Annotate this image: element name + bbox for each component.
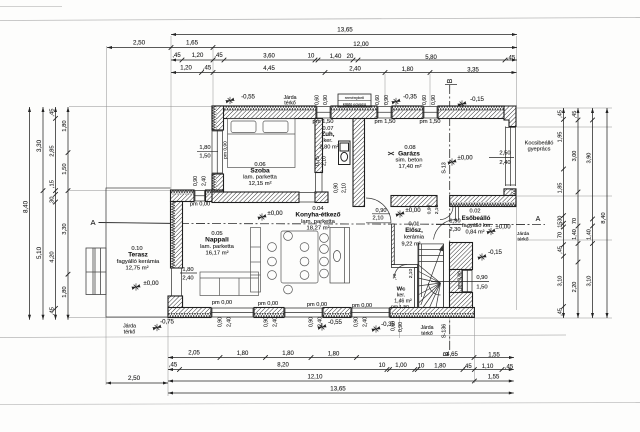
svg-text:1,50: 1,50	[62, 163, 68, 175]
level marker -0,15 (top)	[458, 100, 467, 107]
svg-text:fagyálló kerámia: fagyálló kerámia	[117, 259, 160, 265]
svg-text:,45: ,45	[558, 246, 564, 254]
svg-text:sim. beton: sim. beton	[396, 158, 423, 164]
svg-text:-0,55: -0,55	[328, 319, 342, 326]
svg-text:,70: ,70	[392, 273, 398, 280]
svg-text:2,40: 2,40	[363, 317, 369, 327]
svg-text:3,90: 3,90	[587, 153, 593, 164]
dimension chain bottom row2	[168, 363, 514, 372]
svg-text:1,85: 1,85	[558, 183, 564, 194]
window west step wall	[194, 191, 206, 202]
svg-text:0,90: 0,90	[427, 204, 433, 214]
svg-text:13,65: 13,65	[337, 27, 353, 34]
sideboard	[251, 228, 261, 293]
boxed label (top)	[338, 94, 371, 107]
svg-text:1,40: 1,40	[330, 54, 342, 60]
svg-text:5,10: 5,10	[36, 246, 43, 259]
front entry door arc	[434, 219, 457, 239]
svg-text:12,75 m²: 12,75 m²	[125, 266, 148, 272]
svg-text:2,10: 2,10	[434, 204, 440, 214]
dimension chain left col3	[49, 107, 58, 320]
dimension chain right col1	[558, 108, 566, 318]
svg-text:térkő: térkő	[518, 237, 529, 243]
window north W3	[423, 107, 438, 119]
svg-text:±0,00: ±0,00	[495, 224, 511, 231]
window garage east	[506, 127, 516, 187]
dimension chain top 2,50 1,65 12,00	[107, 40, 517, 50]
svg-text:,45: ,45	[203, 66, 212, 72]
svg-text:1,20: 1,20	[192, 53, 204, 59]
Szoba south wall	[212, 192, 299, 203]
svg-text:lam. parketta: lam. parketta	[243, 175, 278, 181]
svg-text:2,80 m²: 2,80 m²	[319, 145, 338, 151]
terrace outline	[106, 188, 171, 317]
svg-text:,45: ,45	[169, 363, 178, 369]
dimension chain top row3	[171, 53, 517, 62]
svg-text:Esőbeálló: Esőbeálló	[462, 215, 491, 222]
svg-text:Szoba: Szoba	[250, 168, 270, 175]
svg-text:0,60: 0,60	[315, 95, 321, 105]
svg-text:1,50: 1,50	[199, 154, 211, 160]
svg-text:3,60: 3,60	[263, 54, 275, 60]
svg-text:S-136: S-136	[442, 324, 448, 338]
svg-text:3,30: 3,30	[36, 139, 43, 152]
dimension chain bottom row1	[168, 351, 514, 360]
level marker +-0,00 esobeallo	[487, 228, 496, 235]
svg-text:,45: ,45	[505, 365, 514, 371]
svg-text:1,95: 1,95	[558, 132, 564, 143]
svg-text:5,80: 5,80	[425, 55, 437, 61]
svg-text:2,10: 2,10	[342, 183, 348, 193]
svg-text:B: B	[447, 78, 454, 83]
window west (Szoba)	[212, 130, 223, 174]
svg-text:,15: ,15	[558, 222, 564, 230]
svg-text:Zuh,: Zuh,	[322, 131, 335, 138]
staircase	[418, 244, 444, 308]
svg-text:0,90: 0,90	[384, 95, 390, 105]
svg-text:18,27 m²: 18,27 m²	[306, 226, 329, 232]
svg-text:1,80: 1,80	[328, 352, 340, 358]
svg-text:2,40: 2,40	[202, 176, 208, 186]
svg-text:1,40: 1,40	[572, 229, 578, 240]
svg-text:,45: ,45	[558, 308, 564, 316]
level marker +-0,00 hall	[396, 210, 405, 217]
kitchen counter	[330, 228, 350, 284]
svg-text:3,10: 3,10	[587, 276, 593, 287]
svg-text:1,80: 1,80	[199, 145, 211, 151]
svg-text:16,17 m²: 16,17 m²	[205, 251, 228, 257]
svg-text:10: 10	[379, 363, 386, 369]
svg-text:4,20: 4,20	[49, 251, 55, 263]
kitchen/hall thin wall	[392, 224, 395, 265]
svg-text:pm 0,00: pm 0,00	[307, 302, 327, 308]
svg-text:1,46 m²: 1,46 m²	[394, 299, 412, 305]
window south W3	[351, 308, 390, 317]
svg-text:4,45: 4,45	[263, 66, 275, 72]
dimension chain bottom 12,10 1,55	[168, 375, 514, 384]
svg-text:3,30: 3,30	[62, 223, 68, 235]
window north W1	[316, 107, 331, 119]
svg-text:-0,75: -0,75	[160, 319, 174, 326]
svg-text:12,10: 12,10	[308, 375, 324, 381]
svg-text:0,60: 0,60	[422, 95, 428, 105]
svg-text:2,10: 2,10	[408, 268, 414, 278]
svg-text:9,22 m²: 9,22 m²	[401, 242, 420, 248]
garage NE corner pillar	[504, 106, 516, 127]
terrace steps	[86, 248, 106, 295]
level marker -0,35 (bottom)	[372, 325, 381, 332]
svg-text:2,40: 2,40	[182, 276, 194, 282]
svg-text:pm 0,00: pm 0,00	[190, 202, 210, 208]
dimension chain bottom 13,65	[168, 386, 514, 395]
svg-text:0,90: 0,90	[218, 317, 224, 327]
svg-text:,45: ,45	[49, 307, 55, 315]
Szoba door opening	[299, 193, 315, 203]
dimension chain left 3,30 5,10	[36, 107, 46, 320]
level marker +-0,00 terasz	[132, 283, 141, 290]
svg-text:2,50: 2,50	[499, 151, 511, 157]
dimension chain top row4	[171, 66, 517, 75]
svg-text:2,40: 2,40	[499, 160, 511, 166]
level marker +-0,00 nappali	[258, 213, 267, 220]
svg-text:12,15 m²: 12,15 m²	[248, 181, 271, 187]
svg-text:13,65: 13,65	[330, 386, 346, 393]
svg-text:1,80: 1,80	[402, 67, 414, 73]
svg-text:0,60: 0,60	[375, 95, 381, 105]
svg-text:8,40: 8,40	[601, 212, 607, 224]
level marker -0,35 (top)	[392, 98, 401, 105]
svg-text:2,40: 2,40	[273, 317, 279, 327]
svg-text:Terasz: Terasz	[128, 252, 148, 259]
level marker -0,55 (top)	[226, 97, 235, 104]
svg-text:3,10: 3,10	[558, 276, 564, 287]
svg-text:pm 0,90: pm 0,90	[223, 141, 229, 159]
faint site boundary line	[0, 335, 566, 338]
svg-text:Elősz,: Elősz,	[405, 227, 423, 234]
svg-text:3,00: 3,00	[572, 151, 578, 162]
window north W2	[377, 107, 392, 119]
faint scan line bottom	[0, 403, 640, 405]
extension lines	[69, 36, 612, 396]
svg-text:1,90: 1,90	[449, 219, 461, 225]
svg-text:1,80: 1,80	[62, 286, 68, 298]
dimension chain left col4	[62, 107, 71, 320]
chairs	[268, 232, 329, 294]
dimension chain right col3	[587, 108, 595, 318]
partition Szoba/Zuh	[315, 119, 323, 173]
section line A-A	[90, 216, 545, 227]
svg-text:,45: ,45	[507, 56, 516, 62]
svg-text:2,05: 2,05	[188, 351, 200, 357]
svg-text:17,40 m²: 17,40 m²	[398, 164, 421, 170]
svg-text:reménybeli: reménybeli	[345, 95, 365, 100]
svg-text:,45: ,45	[558, 110, 564, 118]
svg-text:-0,55: -0,55	[241, 94, 255, 101]
svg-text:-0,15: -0,15	[488, 249, 502, 256]
window south W2	[284, 308, 323, 317]
south exterior wall	[168, 313, 183, 318]
svg-text:kerámia: kerámia	[404, 235, 425, 241]
svg-text:8,20: 8,20	[277, 363, 289, 369]
sofa	[200, 272, 259, 296]
WC walls	[392, 265, 418, 308]
svg-text:Nappali: Nappali	[205, 237, 229, 244]
svg-text:8,40: 8,40	[22, 200, 29, 213]
svg-text:12,00: 12,00	[353, 41, 369, 48]
svg-text:1,50: 1,50	[476, 285, 488, 291]
svg-text:2,10: 2,10	[373, 216, 384, 222]
level marker -0,75 (bottom)	[153, 324, 162, 331]
svg-text:1,55: 1,55	[488, 353, 500, 359]
dining table	[281, 231, 318, 283]
window SE stair wall	[463, 270, 473, 293]
svg-text:kilátó egység: kilátó egység	[343, 102, 366, 107]
svg-text:1,65: 1,65	[186, 40, 199, 47]
svg-text:A: A	[536, 216, 541, 223]
svg-text:,45: ,45	[463, 364, 472, 370]
svg-text:,45: ,45	[172, 53, 181, 59]
svg-text:±0,00: ±0,00	[405, 207, 421, 214]
svg-text:2,10: 2,10	[322, 156, 328, 166]
svg-text:70: 70	[558, 232, 564, 238]
svg-text:1,80: 1,80	[434, 364, 446, 370]
faint scan line top-left	[0, 6, 62, 8]
svg-text:,15: ,15	[49, 180, 55, 188]
dimension chain bottom 2,50	[106, 375, 168, 385]
svg-text:0,90: 0,90	[431, 95, 437, 105]
Zuh door opening in partition	[316, 173, 323, 193]
garage south wall	[391, 196, 437, 207]
svg-text:B: B	[443, 351, 450, 356]
WC door arc	[395, 265, 408, 278]
svg-text:lam. parketta: lam. parketta	[200, 244, 235, 250]
svg-text:Járda: Járda	[517, 231, 530, 237]
svg-text:10: 10	[308, 54, 315, 60]
shower + basin	[339, 141, 351, 165]
svg-text:0,90: 0,90	[309, 317, 315, 327]
svg-text:2,40: 2,40	[318, 317, 324, 327]
svg-text:1,80: 1,80	[237, 351, 249, 357]
svg-text:1,80: 1,80	[182, 267, 194, 273]
level marker -0,15 (stairs)	[478, 253, 487, 260]
svg-text:S-13: S-13	[442, 162, 448, 173]
svg-text:ker.: ker.	[323, 138, 332, 144]
door arc hall NE	[440, 207, 453, 220]
svg-text:pm 0,00: pm 0,00	[352, 303, 372, 309]
svg-text:1,55: 1,55	[488, 375, 500, 381]
garage west wall	[353, 119, 365, 207]
svg-text:1,10: 1,10	[482, 364, 494, 370]
faint scan line top	[0, 18, 640, 21]
section line B-B (S-136)	[442, 78, 458, 356]
svg-text:pm 0,00: pm 0,00	[212, 300, 232, 306]
level marker +-0,00 garage	[448, 158, 457, 165]
west wall upper (Szoba)	[212, 106, 217, 130]
svg-text:0,90: 0,90	[398, 322, 404, 332]
svg-text:-0,15: -0,15	[470, 96, 484, 103]
svg-text:,45: ,45	[49, 108, 55, 116]
svg-text:2,20: 2,20	[572, 282, 578, 293]
bed	[228, 119, 296, 168]
svg-text:0,90: 0,90	[323, 95, 329, 105]
svg-text:1,40: 1,40	[587, 229, 593, 240]
SE stair block wall	[450, 243, 473, 270]
hall east wall (thin, above front door)	[456, 207, 459, 221]
svg-text:10: 10	[418, 364, 425, 370]
svg-text:1,80: 1,80	[282, 351, 294, 357]
svg-text:pm 1,50: pm 1,50	[374, 119, 396, 125]
svg-text:fagyálló ker.: fagyálló ker.	[462, 223, 492, 229]
svg-text:pm 0,00: pm 0,00	[258, 301, 278, 307]
svg-text:térkő: térkő	[421, 331, 433, 337]
svg-text:±0,00: ±0,00	[267, 210, 283, 217]
svg-text:1,20: 1,20	[180, 66, 192, 72]
svg-text:pm 1,50: pm 1,50	[312, 119, 334, 125]
svg-text:20: 20	[347, 54, 354, 60]
svg-text:0,90: 0,90	[354, 317, 360, 327]
svg-text:±0,00: ±0,00	[143, 280, 159, 287]
svg-text:70: 70	[572, 218, 578, 224]
dimension chain top 13,65	[171, 27, 517, 37]
west wall lower (Nappali)	[171, 202, 176, 269]
level marker -0,55 (bottom)	[318, 323, 327, 330]
svg-text:0,60: 0,60	[391, 321, 397, 331]
north exterior wall	[212, 106, 316, 111]
door arc garage-kitchen	[366, 198, 391, 223]
stair west wall line	[418, 243, 420, 308]
dimension chain left 8,40	[22, 107, 31, 320]
svg-text:3,35: 3,35	[467, 68, 479, 74]
svg-text:2,85: 2,85	[49, 145, 55, 156]
svg-text:pm 1,50: pm 1,50	[419, 119, 441, 125]
svg-text:0,90: 0,90	[476, 275, 488, 281]
svg-text:1,00: 1,00	[395, 363, 407, 369]
svg-text:0,90: 0,90	[376, 208, 387, 214]
svg-text:-0,35: -0,35	[403, 94, 417, 101]
svg-text:1,80: 1,80	[62, 120, 68, 132]
svg-text:0,90: 0,90	[264, 317, 270, 327]
dimension chain right col4	[601, 108, 609, 318]
window south W1	[211, 308, 254, 317]
dimension chain right col2	[572, 108, 580, 318]
svg-text:2,50: 2,50	[128, 375, 141, 382]
svg-text:pm 0,86: pm 0,86	[457, 271, 463, 289]
svg-text:,30: ,30	[49, 196, 55, 205]
svg-text:térkő: térkő	[124, 330, 136, 336]
svg-text:±0,00: ±0,00	[457, 155, 473, 162]
svg-text:lam. parketta: lam. parketta	[301, 219, 336, 225]
svg-text:,45: ,45	[214, 53, 223, 59]
svg-text:2,40: 2,40	[227, 317, 233, 327]
terrace door opening	[171, 268, 182, 296]
svg-text:0,75: 0,75	[315, 156, 321, 166]
svg-text:pm 1,50: pm 1,50	[391, 304, 409, 310]
svg-text:0,90: 0,90	[193, 176, 199, 186]
garage SE pillar	[512, 189, 517, 207]
svg-text:2,50: 2,50	[133, 40, 146, 47]
svg-text:2,30: 2,30	[449, 227, 461, 233]
svg-text:2,40: 2,40	[349, 67, 361, 73]
svg-text:gyeprács: gyeprács	[528, 147, 551, 153]
svg-text:Garázs: Garázs	[398, 151, 420, 158]
svg-text:0,90: 0,90	[334, 183, 340, 193]
svg-text:0.02: 0.02	[470, 209, 481, 215]
svg-text:térkő: térkő	[284, 101, 296, 107]
svg-text:Konyha-étkező: Konyha-étkező	[296, 212, 341, 219]
west step wall	[171, 190, 195, 195]
svg-text:,45: ,45	[572, 111, 578, 119]
svg-text:0,84 m²: 0,84 m²	[465, 230, 484, 236]
